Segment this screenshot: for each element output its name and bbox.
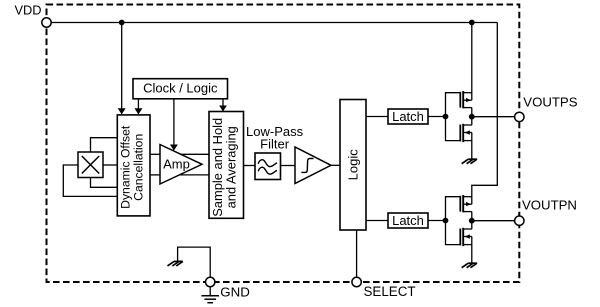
schmitt trigger xyxy=(295,147,331,184)
wire Clock/Logic to Sample and Hold (arrow) xyxy=(222,99,224,111)
filter block (wave symbol) xyxy=(255,153,281,180)
wire VDD rail xyxy=(51,22,497,24)
svg-text:Logic: Logic xyxy=(346,149,361,181)
wire VDD to Dynamic Offset Cancellation (arrow) xyxy=(121,23,123,114)
wire filter to schmitt xyxy=(281,165,296,167)
wire Q3 source to output node xyxy=(471,212,473,229)
transistor Q3 drain stub xyxy=(463,196,472,198)
wire Clock/Logic to DOC (arrow) xyxy=(137,99,139,114)
transistor Q2 drain stub xyxy=(463,124,472,126)
transistor Q2 body stub with arrow xyxy=(463,132,472,134)
terminal SELECT xyxy=(352,277,361,286)
transistor Q1 PMOS channel bar xyxy=(462,91,464,108)
chassis ground top pair xyxy=(462,159,477,164)
IC dashed border xyxy=(47,5,520,283)
svg-text:GND: GND xyxy=(220,285,250,300)
wire hall top to DOC xyxy=(91,138,118,152)
block Clock/Logic xyxy=(133,79,228,99)
wire Q2 source to ground xyxy=(471,133,473,160)
block Sample and Hold and Averaging xyxy=(209,112,244,219)
transistor Q1 source stub xyxy=(463,107,472,109)
wire GND internal to chassis ground xyxy=(178,247,211,278)
transistor Q2 NMOS gate bar xyxy=(459,125,461,142)
wire output node to VOUTPN xyxy=(472,220,515,222)
wire DOC to Amp input bottom xyxy=(150,174,160,176)
hall element (square with X) xyxy=(78,152,103,178)
wire hall bottom to DOC xyxy=(91,178,118,188)
transistor Q3 body stub with arrow xyxy=(463,203,472,205)
wire top Latch to gate node xyxy=(428,116,446,118)
wire Q1 source to output node xyxy=(471,108,473,125)
block Dynamic Offset Cancellation xyxy=(117,115,150,216)
wire VDD rail down to lower pair xyxy=(472,23,498,205)
terminal GND xyxy=(206,277,215,286)
terminal VOUTPS xyxy=(515,112,524,121)
transistor Q4 NMOS channel bar xyxy=(462,228,464,246)
svg-text:Cancellation: Cancellation xyxy=(132,134,146,201)
transistor Q4 drain stub xyxy=(463,228,472,230)
wire Logic to bottom Latch xyxy=(366,220,388,222)
transistor Q3 source stub xyxy=(463,211,472,213)
transistor Q1 body stub with arrow xyxy=(463,99,472,101)
block Latch (top) xyxy=(388,109,428,124)
terminal VDD xyxy=(42,18,51,27)
transistor pair bottom (VOUTPN) xyxy=(446,195,477,268)
svg-text:VOUTPS: VOUTPS xyxy=(523,95,577,110)
block Logic xyxy=(340,100,366,231)
wire Q4 source to ground xyxy=(471,237,473,264)
wire output node to VOUTPS xyxy=(472,116,515,118)
wire Logic to SELECT xyxy=(356,230,358,278)
wire Logic to top Latch xyxy=(366,116,388,118)
terminal VOUTPN xyxy=(515,216,524,225)
wire hall left around to DOC xyxy=(63,165,117,196)
block Latch (bottom) xyxy=(388,213,428,228)
svg-text:Clock / Logic: Clock / Logic xyxy=(143,80,218,95)
svg-text:Amp: Amp xyxy=(163,156,190,171)
svg-text:VDD: VDD xyxy=(15,3,42,18)
svg-text:Latch: Latch xyxy=(392,213,424,228)
svg-text:Filter: Filter xyxy=(260,136,290,151)
transistor Q4 source stub xyxy=(463,244,472,246)
wire Clock/Logic to Amp (arrow) xyxy=(173,99,175,150)
wire Amp output top to S/H xyxy=(181,153,209,155)
op-amp Amp xyxy=(160,145,202,185)
label Low-Pass Filter xyxy=(246,124,304,151)
junction output node bottom xyxy=(469,218,475,224)
transistor Q1 PMOS gate bar xyxy=(459,92,461,108)
earth ground symbol below GND xyxy=(201,286,219,302)
svg-text:Latch: Latch xyxy=(392,109,424,124)
wire S/H to low-pass filter xyxy=(244,165,256,167)
junction gate node bottom xyxy=(443,218,449,224)
svg-text:and Averaging: and Averaging xyxy=(224,126,239,208)
svg-text:SELECT: SELECT xyxy=(364,284,416,299)
transistor pair top (VOUTPS) xyxy=(446,23,477,164)
junction on VDD rail at output stage xyxy=(469,20,475,26)
wire schmitt to Logic xyxy=(331,164,340,166)
chassis ground bottom pair xyxy=(462,263,477,268)
wire VDD down to Q1 xyxy=(471,23,473,101)
transistor Q4 NMOS gate bar xyxy=(459,229,461,246)
svg-text:VOUTPN: VOUTPN xyxy=(522,197,577,212)
junction gate node top xyxy=(443,114,449,120)
svg-text:Dynamic Offset: Dynamic Offset xyxy=(119,125,133,209)
gate bus bottom pair xyxy=(446,197,461,245)
gate bus top pair xyxy=(446,93,461,141)
wire DOC to Amp input top xyxy=(150,153,160,155)
chassis ground internal xyxy=(168,261,183,266)
transistor Q4 body stub with arrow xyxy=(463,236,472,238)
transistor Q3 PMOS gate bar xyxy=(459,196,461,212)
junction on VDD rail at DOC drop xyxy=(119,20,125,26)
junction output node top xyxy=(469,114,475,120)
wire hall right to DOC xyxy=(103,164,117,166)
transistor Q2 NMOS channel bar xyxy=(462,124,464,142)
wire Amp output bottom to S/H xyxy=(180,174,210,176)
transistor Q2 source stub xyxy=(463,140,472,142)
transistor Q3 PMOS channel bar xyxy=(462,195,464,212)
wire bottom Latch to gate node xyxy=(428,220,446,222)
transistor Q1 drain stub xyxy=(463,92,472,94)
